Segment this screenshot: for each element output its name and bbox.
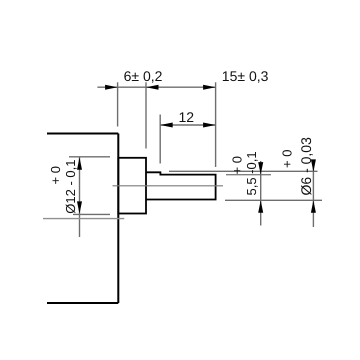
motor body outline (47, 134, 118, 304)
arrow Ø6 bottom pointing up (311, 200, 316, 213)
extension line shaft bottom level (225, 199, 322, 201)
extension line x=117.6 (body face) (117, 82, 119, 126)
Ø12 top extension line (69, 156, 110, 158)
svg-text:+ 0: + 0 (280, 150, 295, 168)
arrow Ø6 top pointing down (311, 159, 316, 172)
svg-text:Ø12 - 0,1: Ø12 - 0,1 (63, 159, 78, 213)
Ø6 dimension line x=313.4 (312, 162, 314, 227)
svg-text:5,5 -0,1: 5,5 -0,1 (244, 151, 259, 195)
arrow 5,5 top pointing down (258, 162, 263, 175)
top dimension line y=87.2 (97, 86, 215, 88)
shaft profile with flat (146, 172, 216, 199)
Ø12 dimension line x=79.5 (79, 157, 81, 237)
arrow Ø12 bottom pointing down (77, 201, 82, 214)
centerline (113, 185, 224, 187)
5,5 dimension line x=260.7 (260, 161, 262, 226)
svg-text:+ 0: + 0 (230, 156, 245, 174)
arrow 5,5 bottom pointing up (258, 200, 263, 213)
extension line x=146 (flange face) (145, 82, 147, 148)
arrow at 215.6 pointing right (12 right) (203, 123, 216, 128)
arrow at 160.2 pointing left (12 left) (160, 123, 173, 128)
arrow at 146 pointing left (6± right / 15± left) (146, 85, 159, 90)
arrow at 117.6 pointing right (6± left) (105, 85, 118, 90)
dimension line 12 (y=125) (160, 124, 215, 126)
extension line Ø6 top level (169, 170, 318, 172)
Ø12 bottom extension line (73, 213, 110, 215)
arrow at 215.6 pointing right (15± right) (203, 85, 216, 90)
arrow Ø12 top pointing up (77, 157, 82, 170)
svg-text:12: 12 (179, 109, 195, 125)
extension line flat level (226, 174, 271, 176)
svg-text:6± 0,2: 6± 0,2 (124, 68, 163, 84)
reference line under body (mounting line) (43, 218, 124, 220)
svg-text:Ø6 - 0,03: Ø6 - 0,03 (298, 137, 314, 196)
flange (Ø12 boss) (118, 158, 146, 214)
extension line x=215.6 (shaft end) (215, 82, 217, 167)
svg-text:15± 0,3: 15± 0,3 (222, 68, 269, 84)
svg-text:+ 0: + 0 (48, 166, 63, 184)
extension line x=160.2 (flat start) (159, 115, 161, 164)
